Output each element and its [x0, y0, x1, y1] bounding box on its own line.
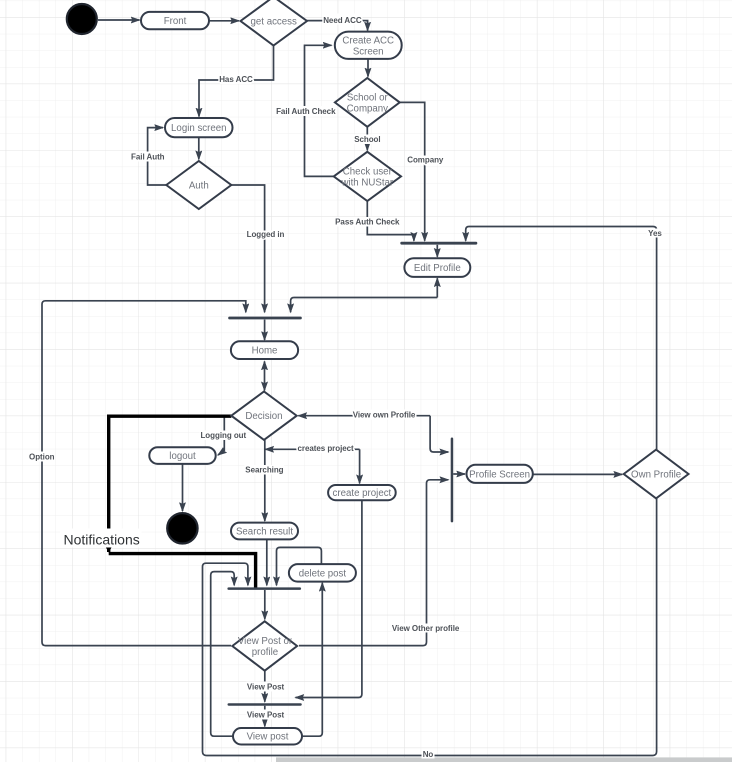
edge creates project down into create project — [359, 449, 361, 483]
svg-text:Logging out: Logging out — [200, 431, 246, 440]
edge join bar 1 to Edit Profile — [436, 245, 438, 257]
start node circle — [67, 4, 97, 34]
svg-text:Edit Profile: Edit Profile — [414, 263, 461, 274]
edge Search result to join bar 3 — [266, 539, 268, 585]
join bar 1 — [400, 242, 477, 245]
join bar 4 — [228, 703, 302, 706]
edge logout to end circle — [182, 464, 184, 511]
label creates project — [299, 445, 353, 454]
label No — [422, 750, 435, 759]
edge Logging out: Decision to logout — [218, 418, 224, 456]
svg-text:Own Profile: Own Profile — [631, 469, 681, 480]
edge join bar 4 to View post — [264, 706, 266, 727]
node Auth diamond — [166, 161, 231, 209]
svg-text:with NUStar: with NUStar — [340, 177, 393, 188]
edge Create ACC Screen to School or Company — [367, 59, 369, 77]
edge Has ACC: get access to Login screen — [199, 46, 274, 117]
svg-text:Has ACC: Has ACC — [219, 75, 253, 84]
node delete post — [289, 564, 356, 582]
node Search result — [231, 523, 298, 540]
edge Home-Decision double arrow down — [264, 375, 266, 390]
label Logged in — [247, 231, 285, 240]
edge Front to get access — [210, 20, 240, 22]
svg-text:School: School — [354, 135, 380, 144]
svg-text:logout: logout — [169, 451, 196, 462]
svg-text:Home: Home — [252, 346, 278, 357]
svg-text:Fail Auth: Fail Auth — [131, 153, 165, 162]
svg-text:Decision: Decision — [245, 411, 282, 422]
edge thick Notifications from Decision — [109, 416, 232, 552]
label View Post upper — [247, 682, 285, 692]
label Yes — [647, 229, 664, 238]
edge thick to join bar 3 — [109, 554, 256, 589]
fork bar 5 vertical — [451, 438, 454, 523]
svg-text:Profile Screen: Profile Screen — [469, 469, 530, 480]
edge Edit Profile line to join bar 2 — [291, 298, 438, 313]
svg-text:Company: Company — [347, 103, 389, 114]
edge Pass Auth Check: Check user to join bar 1 — [367, 201, 414, 241]
svg-text:Notifications: Notifications — [64, 531, 140, 547]
node Check user with NUStar diamond — [334, 152, 401, 201]
join bar 2 — [228, 317, 302, 320]
label Fail Auth — [131, 152, 165, 162]
svg-text:Company: Company — [407, 156, 444, 165]
label View Post lower — [247, 710, 285, 720]
label Option — [29, 452, 56, 462]
edge delete post to join bar 3 — [277, 547, 322, 585]
edge create project to join bar 4 — [296, 500, 362, 697]
edge join bar 2 to Home — [264, 320, 266, 340]
node Front — [141, 12, 209, 29]
svg-text:School or: School or — [347, 92, 389, 103]
svg-text:Option: Option — [29, 453, 55, 462]
page bottom edge band — [276, 757, 732, 762]
edge up into Edit Profile bottom — [436, 278, 438, 297]
label Need ACC — [323, 14, 363, 25]
node logout — [149, 447, 215, 464]
svg-text:delete post: delete post — [299, 568, 347, 579]
svg-text:get access: get access — [251, 17, 297, 28]
node School or Company diamond — [335, 78, 400, 127]
svg-text:View Post or: View Post or — [238, 636, 293, 647]
edge fork bar 5 to Profile Screen — [453, 473, 465, 475]
edge Login screen to Auth — [198, 137, 200, 159]
label Company — [407, 156, 444, 165]
join bar 3 — [227, 587, 301, 590]
svg-text:Search result: Search result — [236, 527, 293, 538]
svg-text:View Other profile: View Other profile — [392, 624, 460, 633]
svg-text:View Post: View Post — [247, 683, 285, 692]
edge View own Profile into Decision — [298, 415, 430, 417]
svg-text:View Post: View Post — [247, 711, 285, 720]
svg-text:No: No — [423, 750, 434, 759]
label Logging out — [201, 431, 247, 441]
label School — [354, 135, 381, 145]
label Fail Auth Check — [277, 106, 336, 116]
node Own Profile diamond — [624, 450, 689, 499]
svg-text:Fail Auth Check: Fail Auth Check — [276, 107, 336, 116]
node Create ACC Screen — [335, 32, 402, 59]
svg-text:Screen: Screen — [353, 46, 384, 57]
edge join bar 3 to View Post or profile — [264, 590, 266, 619]
svg-text:creates project: creates project — [298, 444, 355, 453]
label Notifications — [60, 529, 142, 548]
label Pass Auth Check — [336, 217, 399, 227]
edge School: School or Company to Check user — [366, 127, 368, 151]
edge Home-Decision double arrow up — [264, 361, 266, 375]
edge View own Profile into fork bar 5 — [430, 416, 448, 452]
node View post — [233, 728, 302, 745]
end node circle — [167, 513, 197, 543]
edge Company: School or Company to join bar 1 — [400, 102, 425, 240]
node Edit Profile — [404, 258, 470, 277]
edge Fail Auth Check: Check user to Create ACC Screen — [305, 45, 334, 176]
edge Yes: Own Profile to join bar 1 — [466, 227, 657, 450]
label Has ACC — [220, 75, 252, 85]
svg-text:Pass Auth Check: Pass Auth Check — [335, 218, 400, 227]
edge Need ACC: get access to Create ACC Screen — [306, 21, 368, 31]
svg-text:Create ACC: Create ACC — [342, 35, 394, 46]
svg-text:View own Profile: View own Profile — [353, 411, 416, 420]
edge Profile Screen to Own Profile — [533, 473, 622, 475]
edge No: Own Profile to join bar 3 — [203, 498, 657, 756]
svg-text:Check user: Check user — [343, 166, 393, 177]
svg-text:Login screen: Login screen — [171, 123, 226, 134]
edge creates project arrow into Decision stem — [265, 448, 359, 450]
svg-text:Front: Front — [164, 16, 187, 27]
svg-text:Auth: Auth — [189, 181, 209, 192]
edge Searching: Decision to Search result — [264, 440, 266, 521]
edge View Post: diamond to join bar 4 — [264, 671, 266, 702]
svg-text:Need ACC: Need ACC — [323, 16, 362, 25]
node Login screen — [165, 118, 233, 137]
svg-text:create project: create project — [333, 488, 392, 499]
edge Logged in: Auth to join bar 2 — [231, 185, 264, 312]
edge View Other profile: diamond to fork bar 5 — [299, 480, 448, 646]
svg-text:profile: profile — [252, 647, 278, 658]
node View Post or profile diamond — [232, 621, 297, 670]
svg-text:Logged in: Logged in — [247, 230, 285, 239]
node Decision diamond — [231, 392, 296, 440]
svg-text:Yes: Yes — [648, 229, 662, 238]
label View own Profile — [354, 410, 415, 420]
svg-text:View post: View post — [247, 732, 289, 743]
edge View post to delete post — [302, 583, 322, 736]
node Home — [231, 341, 298, 359]
node get access diamond — [241, 0, 308, 46]
label View Other profile — [394, 624, 458, 633]
node Profile Screen — [467, 465, 533, 483]
node create project — [328, 485, 396, 500]
edge View post to join bar 3 — [211, 572, 235, 737]
edge start to Front — [98, 19, 140, 21]
svg-text:Searching: Searching — [245, 466, 283, 475]
edge Option: View Post or profile to join bar 2 — [42, 301, 246, 646]
edge Fail Auth: Auth to Login screen — [148, 128, 167, 185]
label Searching — [245, 465, 285, 475]
